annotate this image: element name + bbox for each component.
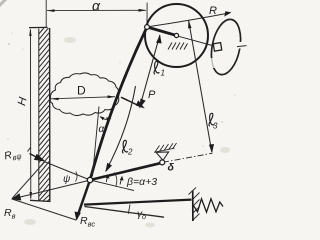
dimension D line [51,97,115,99]
force R_BC arrow [78,180,91,216]
small angle tick 2 at B [120,177,122,185]
svg-text:R: R [209,5,217,17]
support C triangle [156,152,169,160]
support C hatch [154,143,177,152]
lever B-A [90,27,147,179]
pivot C circle [160,160,165,165]
dimension l2 line [106,86,136,171]
angle beta arc [114,173,117,187]
l1 bottom arrow [139,99,145,109]
svg-text:α: α [92,0,101,14]
psi angle arc [76,172,78,182]
ellipse center tick [237,46,247,47]
link O to square [179,36,214,46]
dimension D right arrow [108,95,116,98]
force R_B_psi line [44,162,90,181]
construction line psi-tip to B-tip [12,162,45,199]
label l1 [154,61,159,74]
wall top edge [29,26,48,28]
construction line B-tip to BC-tip [12,199,76,220]
R arrowhead [224,11,231,16]
wall bottom edge [30,200,51,201]
dimension l1 line [140,35,160,107]
angle alpha arc [100,117,111,120]
bottom bar upper [84,200,192,205]
dimension a extension line right [146,3,148,27]
pivot A circle [145,25,150,30]
force R_B line [14,181,89,199]
R_B arrowhead [11,193,21,200]
cloud blob [50,73,119,116]
wall hatching band [39,28,50,201]
alpha arc arrows [100,116,105,120]
link B-C [90,163,160,180]
pivot B circle [87,177,92,182]
spring zigzag [193,199,223,212]
l3 bottom arrow [209,144,214,153]
dimension H bottom arrow [30,192,33,200]
svg-text:3: 3 [213,122,218,131]
spring wall hatch [189,188,200,221]
ellipse rim gap [237,42,247,49]
radius R line [148,13,229,27]
disc ellipse [207,17,245,77]
roller circle [145,4,208,67]
l2 bottom arrow [105,163,112,173]
l1 top arrow [156,35,162,44]
small angle tick 1 at B [106,175,108,182]
label l2 [122,140,127,153]
vertical reference line at B [93,107,100,177]
svg-text:2: 2 [127,148,133,157]
svg-text:δ: δ [168,162,175,174]
bottom bar lower [85,207,165,218]
R_B_psi arrow from label [30,154,42,160]
svg-text:α: α [99,124,105,135]
dimension a line [47,9,146,11]
dimension a right arrow [139,9,147,12]
gamma0 angle tick [128,205,130,214]
l3 top arrow [188,20,191,29]
scan corner smudge [0,0,6,6]
ellipse rim fade bottom-left [209,58,215,68]
dimension H line [29,30,31,199]
pivot O circle [174,33,178,37]
spring wall [192,191,194,222]
svg-text:D: D [77,84,86,98]
svg-text:β=α+3: β=α+3 [126,176,157,188]
svg-text:1: 1 [161,69,165,78]
square slider on disc [213,43,221,51]
dimension H top arrow [29,28,31,36]
svg-text:ψ: ψ [63,174,71,185]
label l3 [209,113,214,126]
link C to l3 foot [163,153,213,162]
dimension D left arrow [51,98,59,101]
wall hatch strokes [39,28,50,201]
thin line B to lower right [90,180,134,191]
crank A-O [147,27,177,36]
fixed pivot hatch at O [168,43,188,50]
paper background [0,0,249,233]
force P arrow [121,97,142,107]
dimension a left arrow [47,9,55,12]
dimension l3 line [189,21,212,153]
svg-text:P: P [148,89,156,101]
paper speckles [7,32,236,147]
dimension a extension line left [45,0,47,27]
